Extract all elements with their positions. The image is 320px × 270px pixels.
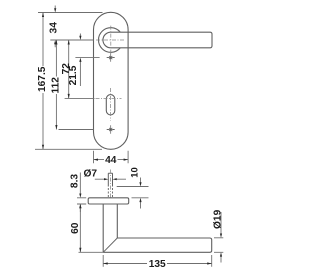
svg-text:135: 135	[149, 259, 166, 270]
dimension 8.3	[77, 198, 86, 204]
svg-text:Ø19: Ø19	[212, 209, 223, 229]
dimension 44	[94, 159, 129, 161]
dimension 72	[68, 40, 70, 98]
lever handle (side view)	[103, 204, 212, 252]
rose centerline vertical	[110, 26, 112, 54]
lever bar (front view)	[111, 32, 212, 48]
svg-text:60: 60	[70, 222, 81, 234]
extension line plate top	[38, 12, 103, 14]
screw hole lower	[107, 125, 115, 133]
extension line lever bottom left	[79, 251, 104, 253]
svg-text:112: 112	[50, 77, 61, 94]
extension line upper screw	[75, 57, 99, 59]
screw hole upper	[107, 53, 115, 61]
keyhole centerline vertical	[110, 88, 112, 121]
dimension 10	[117, 186, 149, 188]
rose centerline horizontal	[96, 39, 126, 41]
dimension 60	[79, 204, 81, 252]
svg-text:34: 34	[49, 22, 60, 34]
svg-text:10: 10	[129, 167, 140, 177]
svg-text:Ø7: Ø7	[84, 169, 98, 180]
extension lines width 44	[94, 151, 129, 164]
rose circle	[99, 28, 121, 53]
extension line handle axis	[50, 39, 93, 41]
dimension Ø19	[214, 238, 223, 253]
backplate outline	[94, 12, 129, 149]
miter seam	[103, 238, 117, 252]
svg-text:167.5: 167.5	[37, 66, 48, 92]
lever neck arc	[103, 32, 111, 48]
extension line plate bottom	[35, 148, 102, 150]
rose (side view)	[88, 198, 129, 204]
svg-text:44: 44	[105, 155, 117, 166]
svg-text:8.3: 8.3	[69, 174, 80, 188]
spindle centerline	[109, 170, 111, 198]
spindle (square shank)	[108, 173, 112, 186]
dimension 34	[54, 6, 56, 48]
extension line cylinder axis	[65, 97, 95, 99]
dimension Ø7	[95, 178, 126, 180]
dimension 167.5	[42, 13, 44, 150]
dimension 135	[103, 255, 212, 267]
keyhole slot	[106, 95, 115, 115]
dimension 112	[55, 40, 57, 130]
svg-text:21.5: 21.5	[68, 65, 79, 85]
dimension 21.5	[79, 34, 81, 87]
keyhole centerline horizontal	[96, 97, 122, 99]
extension line lower screw	[59, 129, 94, 131]
